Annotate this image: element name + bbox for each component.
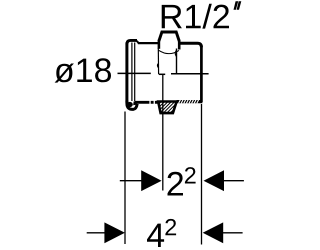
section boundary in thread + right centerline stub — [171, 73, 209, 75]
dimension 4-2 right arrow — [203, 222, 224, 243]
hex left corner edge — [158, 40, 161, 49]
hex right corner edge — [178, 40, 181, 50]
dimension 2-2 right arrow — [204, 170, 225, 191]
hex top outline — [159, 32, 179, 41]
inch marks — [234, 1, 239, 10]
extension line B (hex shoulder) — [162, 75, 164, 191]
extension line A (left, fitting end) — [124, 112, 126, 245]
step from bead to socket surface — [137, 41, 139, 43]
hex left flat arc fragment — [156, 64, 159, 68]
thread top edge — [179, 43, 201, 47]
thread slashes — [179, 100, 199, 104]
dimension text 2 with superscript 2 — [168, 172, 184, 196]
trapezoid hatching — [148, 99, 191, 115]
dimension 4-2 left arrow — [87, 232, 106, 234]
trapezoid outline — [158, 102, 176, 114]
socket bottom edge (section) — [135, 101, 159, 104]
hex wall section trapezoid — [158, 102, 176, 114]
label R1/2" (thread size) — [162, 4, 229, 29]
thread bottom band (section) — [177, 100, 203, 103]
bead section blob — [127, 102, 133, 107]
socket top edge — [138, 42, 160, 44]
thread right end edge — [200, 46, 203, 103]
section boundary under hex — [159, 73, 165, 75]
hex right inner edge — [176, 49, 178, 75]
dimension 2-2 left arrow — [120, 180, 143, 182]
notches in socket bottom edge — [149, 100, 150, 104]
bead-to-socket junction fill — [133, 102, 137, 106]
hex right flat arc fragment — [175, 50, 176, 56]
dimension text 4 with superscript 2 — [147, 224, 164, 247]
label ø18 (socket diameter) — [55, 58, 111, 82]
bead inner wall lines — [131, 43, 133, 102]
press socket bead outline — [127, 40, 137, 44]
centerline left dash — [118, 72, 151, 74]
hex chamfer arc — [159, 50, 180, 53]
extension line C (thread end) — [201, 104, 203, 245]
